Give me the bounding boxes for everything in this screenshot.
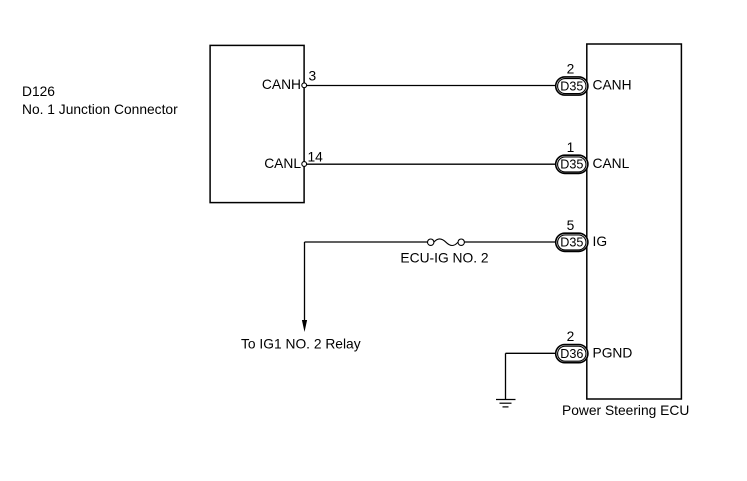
connector D35 pin 2 (CANH) (556, 77, 588, 95)
label CANL (ECU) (593, 156, 630, 171)
connector D35 pin 1 (CANL) (556, 155, 588, 173)
node pin circle CANH (302, 83, 307, 88)
svg-text:No. 1 Junction Connector: No. 1 Junction Connector (22, 102, 178, 117)
svg-text:CANH: CANH (262, 77, 301, 92)
connector D36 pin 2 (PGND) (556, 345, 588, 363)
svg-text:ECU-IG NO. 2: ECU-IG NO. 2 (400, 250, 488, 265)
svg-text:PGND: PGND (593, 346, 633, 361)
label CANH (ECU) (593, 77, 632, 92)
svg-text:D35: D35 (560, 236, 583, 250)
junction connector D126 box (210, 45, 304, 202)
pin number 5 (D35 IG) (567, 218, 575, 233)
svg-text:IG: IG (593, 234, 608, 249)
label PGND (ECU) (593, 346, 633, 361)
connector D35 pin 5 (IG) (556, 233, 588, 251)
pin number 1 (D35 CANL) (567, 140, 575, 155)
wire IG horizontal (left of fuse) (305, 241, 428, 243)
fuse ECU-IG NO. 2 (428, 239, 465, 246)
pin 3 (junction connector CANH) (309, 69, 317, 84)
svg-text:14: 14 (308, 150, 324, 165)
svg-text:2: 2 (567, 62, 575, 77)
label IG (ECU) (593, 234, 608, 249)
svg-text:D35: D35 (560, 158, 583, 172)
svg-text:D36: D36 (560, 347, 583, 361)
svg-text:Power Steering ECU: Power Steering ECU (562, 403, 689, 418)
label CANH (left box) (262, 77, 301, 92)
arrowhead to IG1 NO. 2 relay (302, 320, 307, 332)
label D126 / No. 1 Junction Connector (22, 84, 178, 117)
wire IG vertical drop (304, 242, 306, 321)
svg-text:D35: D35 (560, 79, 583, 93)
node pin circle CANL (302, 162, 307, 167)
label CANL (left box) (264, 156, 301, 171)
svg-text:1: 1 (567, 140, 575, 155)
svg-text:5: 5 (567, 218, 575, 233)
wire PGND horizontal (506, 352, 556, 354)
Power Steering ECU box (587, 44, 682, 399)
svg-text:CANH: CANH (593, 77, 632, 92)
pin number 2 (D35 CANH) (567, 62, 575, 77)
ground (496, 400, 516, 407)
label ECU-IG NO. 2 (400, 250, 488, 265)
wire CANH (307, 85, 556, 87)
svg-text:To IG1 NO. 2 Relay: To IG1 NO. 2 Relay (241, 337, 361, 352)
svg-text:3: 3 (309, 69, 317, 84)
wire CANL (307, 163, 556, 165)
svg-text:CANL: CANL (264, 156, 301, 171)
wire PGND vertical to ground (505, 353, 507, 399)
label Power Steering ECU (562, 403, 689, 418)
svg-text:CANL: CANL (593, 156, 630, 171)
svg-text:D126: D126 (22, 84, 55, 99)
pin number 2 (D36 PGND) (567, 329, 575, 344)
label To IG1 NO. 2 Relay (241, 337, 361, 352)
pin 14 (junction connector CANL) (308, 150, 324, 165)
svg-text:2: 2 (567, 329, 575, 344)
wire IG horizontal (right of fuse) (464, 241, 555, 243)
